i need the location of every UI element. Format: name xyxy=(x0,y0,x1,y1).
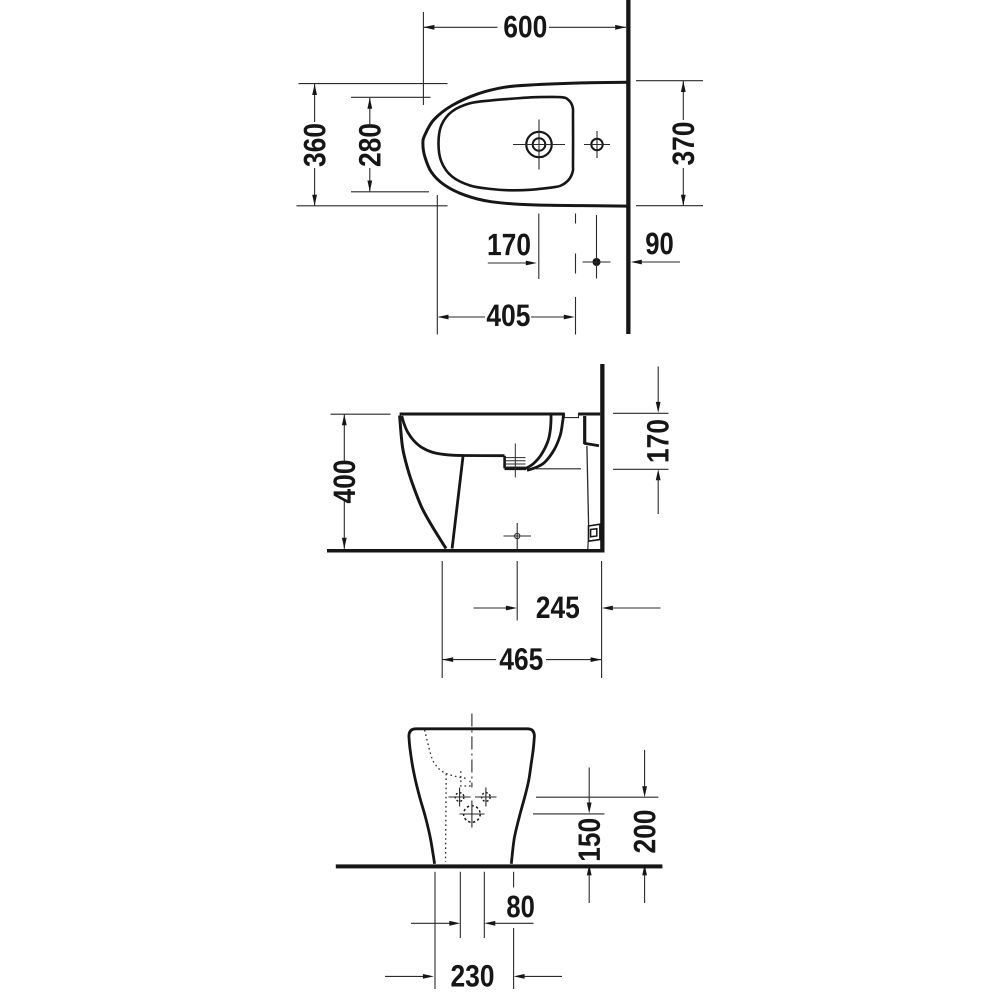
dimension 150 xyxy=(588,768,590,805)
bidet outline (rear) xyxy=(409,729,535,864)
floor line (side view) xyxy=(327,549,605,553)
small hole crosshair horizontal xyxy=(584,144,610,146)
fixing hole right cross xyxy=(475,796,497,798)
dimension 405 text xyxy=(487,304,530,326)
dimension 405 line xyxy=(439,316,485,318)
below floor extension x=517 xyxy=(516,561,518,621)
front face curve xyxy=(400,416,446,549)
drain hole cross xyxy=(460,813,485,815)
recess bottom line xyxy=(584,443,599,446)
below floor extension x=442 xyxy=(441,561,443,678)
rear vertical band xyxy=(583,416,586,444)
dimension 360 bottom extension line xyxy=(297,205,448,207)
fixing hole left (dashed circle) xyxy=(455,793,464,802)
floor line (rear view) xyxy=(336,864,663,868)
dimension 170 arrow line (plan) xyxy=(488,262,528,264)
dimension 600 left extension line xyxy=(422,12,424,105)
strainer lines xyxy=(505,457,526,459)
dimension 405 left extension line xyxy=(436,195,438,335)
below box line xyxy=(587,541,589,549)
fixing hole right (dashed circle) xyxy=(482,793,491,802)
dimension 280 top extension line xyxy=(351,96,431,98)
hidden vertical line left (dotted) xyxy=(445,774,448,862)
dimension 90 text xyxy=(646,233,673,255)
drain extension line right of wall xyxy=(613,468,669,470)
dimension 80 text xyxy=(507,896,534,918)
dimension 600 text xyxy=(504,16,546,38)
center mark cross xyxy=(504,535,532,537)
dimension 370 top extension line xyxy=(636,80,703,82)
dimension 370 text xyxy=(672,123,694,165)
wall line (plan view) xyxy=(626,0,630,334)
dimension 370 bottom extension line xyxy=(636,205,703,207)
faucet hole crosshair horizontal xyxy=(513,144,565,146)
below floor extension x=484 xyxy=(483,872,485,938)
dimension 230 xyxy=(385,975,424,977)
dimension 465 text xyxy=(500,648,543,670)
dimension 600 line xyxy=(423,26,497,28)
fixing box outline (side) xyxy=(589,524,600,541)
rear basin inner curve xyxy=(526,416,551,469)
drain bottom line xyxy=(505,467,527,470)
below floor extension x=601 xyxy=(601,561,603,678)
dimension 465 line xyxy=(442,659,496,661)
drain left drop xyxy=(503,456,506,469)
small mounting hole circle (plan) xyxy=(591,139,602,150)
rim right extension line xyxy=(613,412,669,414)
dimension 360 top extension line xyxy=(299,83,448,85)
floor center mark circle xyxy=(515,533,520,538)
dimension 360 line xyxy=(314,84,316,122)
bidet outer contour (plan) xyxy=(423,82,627,206)
dimension 245 text xyxy=(537,596,579,618)
hidden basin curve (dotted) xyxy=(425,730,466,778)
dimension 280 bottom extension line xyxy=(351,191,429,193)
wall line (side view) xyxy=(600,364,604,552)
back thin line xyxy=(587,446,589,526)
dimension 280 line xyxy=(369,98,371,124)
tap hole outline (side) xyxy=(565,413,579,418)
faucet hole outer circle xyxy=(526,132,551,157)
below floor extension x=460 xyxy=(459,872,461,938)
extension line through faucet center xyxy=(538,214,540,280)
dimension 280 text xyxy=(359,124,381,166)
drain centerline (side) xyxy=(514,444,516,478)
hidden faucet hole lines (dotted) xyxy=(461,771,470,786)
dimension 245 arrows xyxy=(474,607,509,609)
below floor extension x=435 xyxy=(434,872,436,989)
dimension 170 line (side) xyxy=(657,367,659,405)
fixing point dot xyxy=(593,258,601,266)
dimension 360 text xyxy=(304,124,326,166)
dimension 370 line xyxy=(682,81,684,120)
dimension 170 text (plan) xyxy=(489,234,530,256)
fixing hole left cross xyxy=(449,796,471,798)
dashed extension line x=575 xyxy=(575,214,577,224)
dimension 90 arrow line xyxy=(639,261,680,263)
basin interior line xyxy=(402,416,505,456)
pedestal rear line xyxy=(452,457,463,549)
vertical centerline (rear) xyxy=(471,714,473,788)
small hole crosshair vertical xyxy=(596,131,598,158)
faucet hole crosshair vertical xyxy=(538,120,540,170)
faucet hole inner circle xyxy=(533,138,546,151)
dimension 80 arrows xyxy=(411,922,450,924)
below floor extension x=513 (with gap) xyxy=(513,872,515,888)
rear basin outer curve xyxy=(527,416,563,471)
rim top line xyxy=(400,413,565,416)
dimension 400 top extension line xyxy=(331,413,391,415)
fixing dot crosshair horizontal xyxy=(583,261,611,263)
drain extension line left of wall xyxy=(536,468,582,470)
extension line drain level xyxy=(533,813,605,815)
bidet inner basin contour (plan) xyxy=(439,97,574,190)
fixing box inner square xyxy=(591,529,597,537)
extension line holes level xyxy=(536,796,658,798)
dimension 400 text xyxy=(333,461,355,504)
fixing dot crosshair vertical xyxy=(596,215,598,279)
drain hole (dashed circle, rear) xyxy=(464,806,481,823)
dimension 200 xyxy=(644,750,646,788)
dimension 400 line xyxy=(343,414,345,462)
